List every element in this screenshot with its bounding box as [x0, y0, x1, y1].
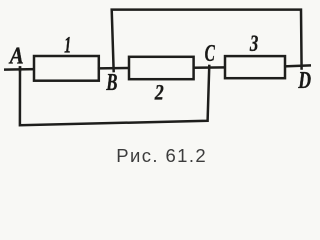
resistor R2: [129, 57, 194, 79]
svg-text:3: 3: [249, 31, 258, 57]
svg-text:B: B: [105, 70, 117, 96]
node A junction tick: [19, 66, 22, 71]
resistor R3: [225, 56, 285, 78]
wire D right lead: [284, 65, 311, 66]
resistor R1: [34, 56, 99, 81]
wire bottom bypass A to C: [20, 65, 209, 126]
svg-text:2: 2: [154, 79, 164, 104]
wire C segment: [193, 66, 226, 69]
svg-text:A: A: [8, 43, 24, 69]
svg-text:D: D: [297, 68, 311, 94]
svg-text:C: C: [205, 41, 216, 67]
wire top bypass B to D: [112, 10, 302, 73]
svg-text:Рис. 61.2: Рис. 61.2: [116, 145, 207, 166]
wire B segment: [98, 67, 130, 70]
wire A left lead: [4, 68, 35, 71]
svg-text:1: 1: [64, 33, 71, 58]
